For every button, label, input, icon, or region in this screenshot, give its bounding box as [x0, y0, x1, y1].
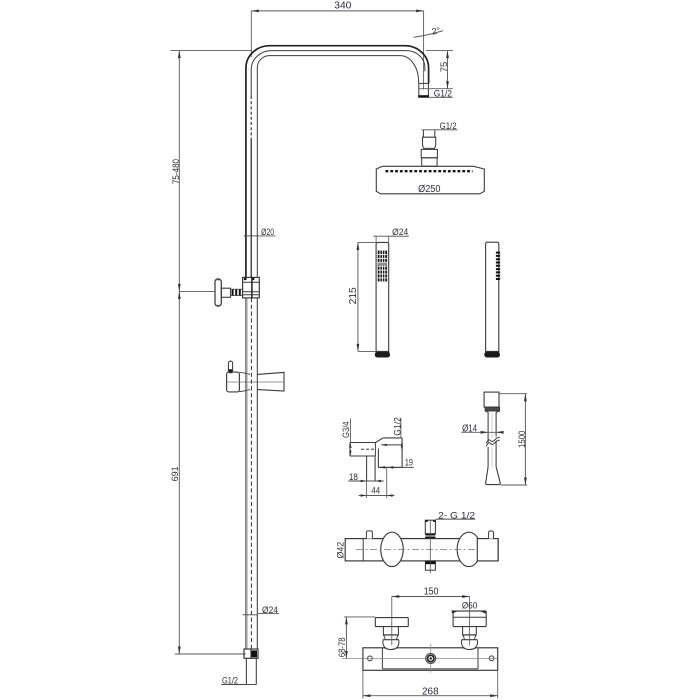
dim 340 (arm length): [251, 10, 423, 12]
bracket clamp block: [243, 277, 260, 298]
handshower side bottom cap: [484, 352, 500, 358]
valve left handle dome: [383, 640, 399, 650]
dim dia 60: [451, 610, 486, 612]
valve front centerline horizontal: [342, 658, 498, 660]
svg-text:Ø60: Ø60: [462, 601, 477, 611]
valve left handle collar: [383, 635, 398, 640]
column pipe inner left line: [246, 298, 248, 649]
label 2- G 1/2: [437, 518, 476, 520]
valve left handle cap: [375, 618, 408, 627]
union wall cylinder: [350, 442, 376, 444]
label dia 24 column: [242, 614, 258, 616]
valve top left port: [366, 531, 372, 539]
bracket arm: [221, 288, 230, 297]
shower head disc: [376, 166, 484, 194]
svg-text:Ø250: Ø250: [418, 184, 441, 195]
dim 691: [178, 291, 180, 654]
shower arm tube inner contour: [257, 56, 418, 278]
union down pipe: [366, 456, 368, 481]
valve top left knob: [381, 532, 404, 566]
dim 691 extension bottom: [175, 653, 246, 655]
svg-text:215: 215: [348, 287, 359, 305]
valve top dashed centerline: [356, 548, 479, 550]
label dia 14: [461, 431, 503, 433]
arm outlet threaded tip: [418, 83, 420, 97]
valve top vertical centerline: [429, 520, 431, 573]
valve right handle dome: [461, 640, 477, 650]
dim 75-480: [178, 51, 180, 292]
label dia 20 column: [244, 235, 260, 237]
svg-text:G1/2: G1/2: [393, 417, 403, 436]
dim 75-480 extension top: [170, 50, 252, 52]
valve front body: [363, 648, 498, 671]
svg-text:18: 18: [349, 472, 358, 482]
nozzle band on disc: [386, 170, 473, 172]
label G1/2 head stem: [422, 129, 458, 131]
valve left handle neck: [383, 627, 398, 635]
handshower spray face: [378, 251, 387, 282]
svg-text:268: 268: [422, 687, 439, 698]
hose break symbol: [486, 437, 500, 443]
valve top bottom outlet port: [425, 561, 435, 570]
svg-text:68-78: 68-78: [337, 637, 347, 657]
union block: [383, 437, 402, 439]
svg-text:44: 44: [371, 485, 380, 495]
valve top right port: [489, 531, 494, 539]
union G3/4 leader and label: [349, 419, 351, 443]
holder saddle curves: [239, 372, 250, 374]
shower arm tube middle contour: [251, 51, 425, 96]
valve top right cap: [477, 539, 498, 561]
bracket knob (wall plate): [215, 279, 221, 306]
hose top collar: [485, 407, 500, 411]
valve front mounting hole left: [368, 656, 373, 661]
dim 150: [392, 596, 470, 598]
extension line right (outlet center): [423, 11, 425, 90]
extension line left (column center): [250, 11, 252, 57]
head stem collar: [421, 149, 437, 157]
column pipe left edge: [245, 298, 247, 649]
valve front center outlet: [426, 654, 436, 664]
valve front inner section lines: [381, 648, 383, 669]
valve top right knob: [457, 532, 481, 566]
holder left block: [227, 372, 240, 392]
valve top view body: [345, 539, 498, 561]
dim 268: [362, 670, 364, 698]
label G1/2 bottom: [221, 684, 256, 686]
holder right cone (handset socket): [257, 372, 284, 391]
dim 19: [378, 466, 413, 468]
svg-text:Ø20: Ø20: [261, 227, 274, 237]
valve top center outlet port: [425, 520, 435, 534]
holder centerline: [226, 381, 284, 383]
dim 18: [348, 480, 383, 482]
valve right handle cap: [453, 611, 486, 627]
handshower side nozzle strip: [496, 252, 500, 282]
head ball joint: [423, 137, 436, 149]
hose tube lower: [487, 447, 489, 467]
handshower side view body: [486, 242, 499, 351]
label dia 24: [373, 235, 409, 237]
valve front center vertical line: [430, 644, 432, 673]
union hidden centerline: [361, 448, 375, 450]
svg-text:Ø14: Ø14: [462, 424, 477, 435]
svg-text:G1/2: G1/2: [222, 676, 238, 687]
hose tube upper: [487, 413, 489, 443]
svg-text:2- G 1/2: 2- G 1/2: [438, 510, 475, 520]
hose top nut: [484, 392, 499, 407]
union G1/2 leader and label: [400, 419, 402, 438]
shower arm tube outer contour: [246, 46, 429, 278]
union block bore line: [381, 444, 402, 446]
svg-text:340: 340: [334, 1, 352, 12]
arm outlet joint line: [419, 82, 429, 84]
valve front mounting hole right: [489, 656, 494, 661]
dim 68-78: [344, 616, 375, 618]
svg-text:75: 75: [439, 62, 450, 73]
dim 75 (arm drop): [426, 50, 453, 52]
valve right handle neck: [463, 627, 477, 635]
svg-text:Ø42: Ø42: [336, 542, 346, 559]
column pipe center hidden line: [250, 298, 252, 649]
valve left handle centerline: [391, 597, 393, 646]
svg-text:G3/4: G3/4: [341, 421, 351, 438]
svg-text:G1/2: G1/2: [440, 121, 457, 131]
dim 215: [358, 241, 376, 243]
bracket ribbed shaft: [231, 289, 243, 295]
hose bottom cone: [486, 467, 501, 485]
handshower front view body: [376, 242, 389, 351]
valve right handle collar: [463, 635, 477, 640]
valve top left cap divider: [362, 539, 364, 561]
dim 1500: [500, 393, 528, 395]
valve right handle centerline: [469, 597, 471, 646]
bottom inlet tail G1/2: [245, 658, 247, 684]
svg-text:Ø24: Ø24: [262, 605, 278, 616]
dim 44: [366, 481, 368, 498]
holder lever: [228, 361, 232, 373]
svg-text:G1/2: G1/2: [434, 89, 452, 99]
svg-text:Ø24: Ø24: [392, 227, 408, 238]
svg-text:75-480: 75-480: [171, 159, 181, 184]
angle 2 deg leader: [414, 31, 443, 38]
svg-text:1500: 1500: [517, 431, 527, 448]
bracket extension line: [179, 290, 215, 292]
column pipe right edge: [256, 298, 258, 649]
label G1/2 arm outlet: [429, 96, 453, 98]
head stem nipple: [422, 130, 424, 137]
svg-text:150: 150: [424, 587, 439, 598]
handshower front bottom cap: [375, 352, 390, 358]
svg-text:19: 19: [405, 458, 413, 468]
bottom fitting: [244, 649, 258, 658]
union shoulder diagonal: [376, 438, 384, 443]
svg-text:691: 691: [170, 466, 181, 481]
head stem base: [422, 158, 437, 166]
